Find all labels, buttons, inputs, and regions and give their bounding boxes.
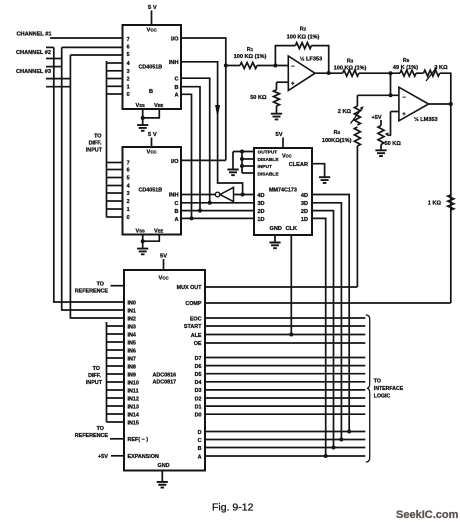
svg-text:50 KΩ: 50 KΩ: [385, 141, 402, 147]
svg-text:INPUT: INPUT: [258, 164, 272, 170]
svg-text:+5V: +5V: [372, 115, 382, 121]
svg-text:A: A: [174, 217, 178, 223]
adc U6 ADC0816 box: [124, 270, 205, 471]
wire ref+ stub: [111, 285, 125, 287]
svg-text:IN12: IN12: [128, 396, 139, 402]
svg-text:Fig. 9-12: Fig. 9-12: [212, 502, 254, 514]
svg-text:IN5: IN5: [128, 340, 136, 346]
svg-text:2: 2: [127, 77, 130, 83]
wires D7-D0: [205, 357, 365, 359]
svg-text:½ LF353: ½ LF353: [300, 56, 322, 63]
wire ref- stub: [110, 438, 124, 440]
svg-text:4D: 4D: [301, 193, 308, 199]
svg-text:D3: D3: [195, 388, 202, 394]
wire add D: [205, 431, 365, 433]
node TO DIFF INPUT (muxes) bus line: [106, 61, 108, 218]
svg-text:B: B: [149, 89, 153, 95]
svg-text:IN7: IN7: [128, 356, 136, 362]
svg-text:IN1: IN1: [128, 308, 136, 314]
wire channel3 stub lower: [46, 86, 70, 88]
wire U1 C down: [181, 78, 210, 203]
wire U2 I/O to I/O bus: [181, 159, 226, 161]
wire channel bus vertical to IN2: [70, 55, 124, 318]
svg-text:REFERENCE: REFERENCE: [75, 288, 109, 294]
wire op2 output: [429, 103, 451, 105]
svg-text:4: 4: [127, 61, 130, 67]
svg-text:4: 4: [127, 184, 130, 190]
wire MUX OUT to R4: [205, 286, 357, 288]
svg-text:5: 5: [127, 176, 130, 182]
wire op2 plus input: [391, 111, 400, 113]
wire START: [205, 325, 365, 327]
svg-text:GND: GND: [270, 226, 282, 232]
svg-text:D: D: [198, 430, 202, 436]
wire U2 pin stubs: [107, 162, 123, 164]
wire ALE: [205, 334, 365, 336]
svg-text:IN9: IN9: [128, 372, 136, 378]
svg-text:REF( − ): REF( − ): [128, 437, 149, 443]
svg-text:A: A: [174, 93, 178, 99]
ground U3 GND pin: [274, 235, 276, 243]
wire add A: [205, 455, 365, 457]
svg-text:LOGIC: LOGIC: [374, 393, 391, 399]
svg-text:ADC0816: ADC0816: [153, 373, 177, 379]
svg-text:1: 1: [127, 85, 130, 91]
svg-text:IN13: IN13: [128, 404, 139, 410]
svg-text:2D: 2D: [257, 209, 264, 215]
svg-text:IN4: IN4: [128, 332, 136, 338]
mux U1 CD4051B box: [123, 25, 182, 109]
wire add C: [205, 439, 365, 441]
wire add B: [205, 447, 365, 449]
svg-text:I/O: I/O: [171, 159, 179, 165]
register U3 MM74C173 box: [254, 148, 312, 235]
svg-text:OE: OE: [194, 341, 202, 347]
svg-text:49 K (1%): 49 K (1%): [393, 65, 418, 71]
wire R3 junction down to op2 minus: [390, 73, 392, 95]
svg-text:CD4051B: CD4051B: [139, 64, 163, 70]
svg-text:1D: 1D: [301, 217, 308, 223]
svg-text:0: 0: [127, 92, 130, 98]
svg-text:C: C: [174, 77, 178, 83]
svg-text:IN11: IN11: [128, 388, 139, 394]
wire TO DIFF INPUT (adc) bus: [106, 322, 108, 422]
svg-text:IN8: IN8: [128, 364, 136, 370]
op-amp U4 half LF353: [288, 56, 315, 91]
svg-text:MM74C173: MM74C173: [269, 187, 297, 193]
svg-text:1D: 1D: [257, 217, 264, 223]
wire U1 INH route to register 4D: [181, 62, 243, 195]
svg-text:CD4051B: CD4051B: [139, 187, 163, 193]
wire op1 output: [315, 72, 343, 74]
svg-text:4D: 4D: [257, 193, 264, 199]
pot 50K op2: [380, 120, 382, 126]
svg-text:0: 0: [127, 215, 130, 221]
resistor 50K op1 + input: [277, 81, 289, 83]
wire U3 1Q to ADC add A: [312, 218, 326, 456]
pot 50K op2 wiper arrow: [388, 134, 391, 137]
svg-text:I/O: I/O: [171, 36, 179, 42]
wire channel1 return stub: [46, 46, 54, 48]
inverter gate: [215, 192, 220, 197]
wire inverter output to U2 INH: [181, 194, 215, 196]
svg-text:+: +: [402, 112, 406, 118]
svg-text:7: 7: [127, 161, 130, 167]
svg-text:+: +: [291, 81, 295, 87]
wire channel1 to U1 pin7: [50, 37, 123, 39]
svg-text:D1: D1: [195, 404, 202, 410]
wire COMP to 1K: [205, 302, 451, 304]
svg-text:DISABLE: DISABLE: [258, 157, 280, 163]
svg-text:3: 3: [127, 191, 130, 197]
wire channel bus vertical to IN1: [62, 47, 124, 310]
svg-text:D6: D6: [195, 364, 202, 370]
svg-text:2D: 2D: [301, 209, 308, 215]
svg-text:6: 6: [127, 168, 130, 174]
svg-text:INH: INH: [169, 193, 179, 199]
svg-text:5V: 5V: [160, 254, 167, 260]
wire channel bus vertical to IN0: [54, 47, 124, 302]
node junction I/O-R1: [224, 64, 228, 68]
wire U1 pins 4-0 stubs: [107, 62, 123, 64]
svg-text:3D: 3D: [301, 201, 308, 207]
svg-text:6: 6: [127, 45, 130, 51]
svg-text:B: B: [174, 85, 178, 91]
wire U3 CLK to ADC ALE: [290, 235, 292, 335]
svg-text:IN0: IN0: [128, 300, 136, 306]
svg-text:100 KΩ (1%): 100 KΩ (1%): [234, 54, 267, 60]
svg-text:TO: TO: [97, 281, 104, 287]
svg-text:IN10: IN10: [128, 380, 139, 386]
wire U3 3Q to ADC add C: [312, 203, 341, 440]
ground ADC: [161, 471, 163, 482]
svg-text:50 KΩ: 50 KΩ: [250, 95, 267, 101]
svg-text:REFERENCE: REFERENCE: [75, 433, 109, 439]
svg-text:DIFF.: DIFF.: [89, 141, 102, 147]
node junction INH-4D: [241, 193, 245, 197]
wire channel2 stub upper: [46, 58, 62, 60]
svg-text:B: B: [174, 209, 178, 215]
svg-text:IN6: IN6: [128, 348, 136, 354]
svg-text:EXPANSION: EXPANSION: [128, 454, 159, 460]
svg-text:INH: INH: [169, 60, 179, 66]
wire channel3 stub upper: [46, 78, 70, 80]
svg-text:D2: D2: [195, 396, 202, 402]
svg-text:ADC0817: ADC0817: [153, 380, 177, 386]
svg-text:1 KΩ: 1 KΩ: [428, 201, 442, 207]
svg-text:TO: TO: [97, 426, 104, 432]
wire U2 A to register 1D: [181, 217, 254, 219]
svg-text:START: START: [184, 324, 202, 330]
svg-text:+5V: +5V: [98, 454, 108, 460]
wire OE: [205, 342, 365, 344]
svg-text:DISABLE: DISABLE: [258, 171, 280, 177]
svg-text:OUTPUT: OUTPUT: [258, 150, 278, 156]
svg-text:3D: 3D: [257, 201, 264, 207]
svg-text:EOC: EOC: [190, 316, 202, 322]
wire disable pins tie: [233, 151, 254, 153]
wire ADC IN3-IN15 stubs: [107, 325, 125, 327]
wire op2 minus input line: [357, 94, 399, 96]
svg-text:IN15: IN15: [128, 420, 139, 426]
svg-text:COMP: COMP: [185, 301, 202, 307]
svg-text:100KΩ(1%): 100KΩ(1%): [322, 138, 352, 144]
svg-text:5 V: 5 V: [148, 5, 157, 11]
wire 2K to output node: [440, 73, 451, 303]
svg-text:D0: D0: [195, 413, 202, 419]
svg-text:INPUT: INPUT: [86, 148, 103, 154]
svg-text:SeekIC.com: SeekIC.com: [396, 509, 459, 521]
svg-text:TO: TO: [93, 366, 100, 372]
svg-text:CHANNEL #3: CHANNEL #3: [16, 69, 51, 75]
wire channel2 to U1 pin6: [62, 46, 123, 48]
ground U2 VSS: [142, 235, 144, 249]
svg-text:D4: D4: [195, 380, 202, 386]
op-amp U5 half LM353: [399, 87, 429, 121]
wire U2 B to register 2D: [181, 210, 254, 212]
svg-text:2 KΩ: 2 KΩ: [338, 109, 352, 115]
svg-text:C: C: [174, 201, 178, 207]
svg-text:B: B: [198, 446, 202, 452]
svg-text:2: 2: [127, 199, 130, 205]
mux U2 CD4051B box: [123, 147, 182, 235]
wire EOC: [205, 317, 365, 319]
svg-text:7: 7: [127, 37, 130, 43]
wire U3 2Q to ADC add B: [312, 211, 334, 448]
svg-text:INPUT: INPUT: [86, 380, 103, 386]
svg-text:A: A: [198, 454, 202, 460]
svg-text:DIFF.: DIFF.: [88, 373, 101, 379]
svg-text:3: 3: [127, 69, 130, 75]
wire R4 to MUX OUT: [356, 146, 358, 287]
arrow on INH line: [215, 105, 220, 118]
wire channel2 stub lower: [46, 66, 62, 68]
wire U2 C to register 3D: [181, 202, 254, 204]
ground U1 VSS: [142, 109, 144, 125]
svg-text:1: 1: [127, 207, 130, 213]
svg-text:IN3: IN3: [128, 324, 136, 330]
svg-text:5 V: 5 V: [148, 132, 157, 138]
svg-text:MUX OUT: MUX OUT: [177, 285, 203, 291]
wire U3 4Q to ADC add D: [312, 195, 349, 432]
svg-text:5V: 5V: [276, 132, 283, 138]
svg-text:GND: GND: [158, 463, 170, 469]
svg-text:CHANNEL #1: CHANNEL #1: [17, 31, 52, 37]
ground disable tie: [232, 152, 234, 170]
svg-text:½ LM353: ½ LM353: [414, 116, 438, 123]
svg-text:CLEAR: CLEAR: [289, 162, 308, 168]
wire channel3 to U1 pin5: [70, 54, 122, 56]
svg-text:INTERFACE: INTERFACE: [374, 386, 404, 392]
wire U1 B down: [181, 87, 200, 211]
svg-text:CLK: CLK: [286, 226, 298, 232]
svg-text:TO: TO: [94, 134, 101, 140]
svg-text:D7: D7: [195, 356, 202, 362]
ground pot 50K: [380, 145, 382, 151]
svg-text:−: −: [402, 95, 406, 101]
wire U1 A down: [181, 94, 192, 218]
wire CLEAR to ground: [312, 164, 325, 178]
svg-text:5: 5: [127, 52, 130, 58]
svg-text:100 KΩ (1%): 100 KΩ (1%): [287, 35, 320, 41]
wire U1 I/O down to U2 I/O and R1: [181, 38, 226, 160]
node interface bracket: [366, 315, 370, 462]
svg-text:D5: D5: [195, 372, 202, 378]
ground 50K op1: [276, 106, 278, 114]
svg-text:IN14: IN14: [128, 412, 139, 418]
svg-text:−: −: [291, 64, 295, 70]
svg-text:IN2: IN2: [128, 316, 136, 322]
svg-text:TO: TO: [374, 379, 381, 385]
svg-text:CHANNEL #2: CHANNEL #2: [16, 50, 51, 56]
svg-text:ALE: ALE: [191, 333, 202, 339]
svg-text:C: C: [198, 438, 202, 444]
wire inverter input / register 4D: [234, 194, 255, 196]
